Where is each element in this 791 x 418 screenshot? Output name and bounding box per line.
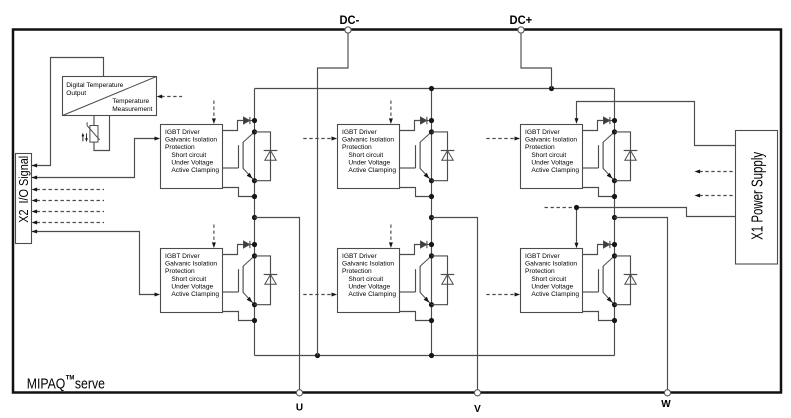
wire: U4 emitter reference to Q4 emitter [223,312,255,321]
svg-text:Galvanic Isolation: Galvanic Isolation [165,261,217,268]
label DC- [340,15,360,27]
wire: freewheel diode D2 branch [432,132,448,181]
IGBT Q1 [239,132,255,181]
svg-text:Short circuit: Short circuit [531,152,566,159]
junction: Q3 emitter node [612,178,617,183]
terminal W [664,390,670,396]
temperature coefficient arrows [82,133,88,142]
junction: Q3 collector node [612,129,617,134]
svg-text:Galvanic Isolation: Galvanic Isolation [525,137,577,144]
freewheel diode D4 [264,275,278,285]
wire: X2 I/O dashed signal line 2 [32,199,105,203]
IGBT Q6 [599,256,615,305]
svg-text:X1 Power Supply: X1 Power Supply [749,152,766,240]
wire: DC- bus [255,355,615,357]
wire: U3 gate drive to Q3 gate [583,167,599,169]
junction: Q5 emitter node [429,302,434,307]
svg-text:Galvanic Isolation: Galvanic Isolation [165,137,217,144]
junction: clamp diode D10 to Q4 collector [252,242,257,247]
wire: supply signal (dashed) into U4 top [212,225,216,249]
wire: freewheel diode D4 branch [255,256,271,305]
wire: U2 active-clamping output to collector of Q2 [400,121,432,131]
wire: freewheel diode D1 branch [255,132,271,181]
svg-text:Digital Temperature: Digital Temperature [66,82,123,89]
label V [474,404,481,415]
svg-text:Short circuit: Short circuit [531,276,566,283]
svg-text:DC+: DC+ [510,15,533,27]
wire: freewheel diode D6 branch [615,256,631,305]
svg-text:Protection: Protection [525,268,555,275]
svg-text:V: V [474,404,481,415]
svg-text:IGBT Driver: IGBT Driver [342,129,377,136]
clamping diode D7 [244,117,250,124]
wire: control signal (dashed) into U6 left [486,293,520,297]
wire: dashed supply continuation to U4/U5 [545,207,574,209]
svg-text:TM: TM [66,375,75,382]
junction: clamp diode D9 to Q3 collector [612,118,617,123]
svg-text:DC-: DC- [340,15,360,27]
junction: phase U output node [252,215,257,220]
label MIPAQ(TM) serve [27,375,105,393]
wire: U4 active-clamping output to collector of Q4 [223,245,255,255]
wire: U1 gate drive to Q1 gate [223,167,239,169]
junction: Q2 emitter sense tap [429,194,434,199]
junction: clamp diode D7 to Q1 collector [252,118,257,123]
junction: Q2 collector node [429,129,434,134]
wire: phase U half-bridge leg (collector/emitter rail) [254,89,256,356]
junction: U6 supply tap [574,205,579,210]
terminal DC- [345,27,351,33]
label U [296,403,303,414]
IGBT Q4 [239,256,255,305]
clamping diode D10 [244,241,250,248]
wire: supply signal (dashed) into U5 top [389,225,393,249]
svg-text:Short circuit: Short circuit [348,276,383,283]
wire: X1 dashed supply output 2 [695,194,736,198]
wire: U4 gate drive to Q4 gate [223,291,239,293]
svg-text:IGBT Driver: IGBT Driver [342,253,377,260]
svg-text:X2 I/O Signal: X2 I/O Signal [17,156,31,223]
junction: phase W output node [612,215,617,220]
gate driver block U6 (bottom W-phase) [521,249,583,313]
svg-text:Output: Output [66,90,86,97]
freewheel diode D1 [264,151,278,161]
svg-text:U: U [296,403,303,414]
gate driver block U2 (top V-phase) [338,125,400,189]
gate driver block U3 (top W-phase) [521,125,583,189]
wire: supply signal (dashed) into U1 top [212,101,216,125]
wire: phase output to terminal W [615,218,668,392]
junction: Q6 emitter node [612,302,617,307]
junction: Q5 collector node [429,253,434,258]
junction: DC- bus / Q5 emitter [429,353,434,358]
svg-text:Short circuit: Short circuit [171,276,206,283]
wire: NTC sensor loop [94,116,110,151]
wire: U5 emitter reference to Q5 emitter [400,312,432,321]
label W [661,399,671,410]
wire: U1 emitter reference to Q1 emitter [223,188,255,197]
svg-text:Protection: Protection [525,144,555,151]
connector X1 (power supply) [736,131,778,265]
junction: Q1 collector node [252,129,257,134]
svg-text:Galvanic Isolation: Galvanic Isolation [525,261,577,268]
junction: Q4 collector node [252,253,257,258]
wire: dashed signal into temperature block [157,95,183,99]
svg-text:IGBT Driver: IGBT Driver [165,253,200,260]
clamping diode D8 [421,117,427,124]
wire: U1 active-clamping output to collector of Q1 [223,121,255,131]
freewheel diode D2 [441,151,455,161]
junction: Q2 emitter node [429,178,434,183]
freewheel diode D3 [624,151,638,161]
svg-text:Under Voltage: Under Voltage [531,159,573,166]
svg-text:Active Clamping: Active Clamping [348,167,396,174]
svg-text:Active Clamping: Active Clamping [531,167,579,174]
wire: control signal (dashed) into U5 left [303,293,337,297]
junction: clamp diode D12 to Q6 collector [612,242,617,247]
wire: X2 to driver U1 (fault/status) [32,137,161,180]
svg-text:Under Voltage: Under Voltage [348,159,390,166]
svg-text:Under Voltage: Under Voltage [171,283,213,290]
wire: U6 gate drive to Q6 gate [583,291,599,293]
junction: Q1 emitter sense tap [252,194,257,199]
svg-text:Active Clamping: Active Clamping [531,291,579,298]
svg-text:Under Voltage: Under Voltage [171,159,213,166]
junction: clamp diode D11 to Q5 collector [429,242,434,247]
junction: Q6 collector node [612,253,617,258]
gate driver block U5 (bottom V-phase) [338,249,400,313]
junction: Q4 emitter node [252,302,257,307]
wire: DC+ terminal feed [521,30,552,89]
IGBT Q5 [416,256,432,305]
terminal V [474,390,480,396]
wire: phase V half-bridge leg (collector/emitter rail) [431,89,433,356]
svg-text:serve: serve [75,376,105,393]
svg-text:Measurement: Measurement [112,106,152,113]
junction: Q4 emitter sense tap [252,318,257,323]
NTC thermistor RT1 [87,122,100,142]
svg-text:MIPAQ: MIPAQ [27,376,66,393]
junction: Q5 emitter sense tap [429,318,434,323]
gate driver block U1 (top U-phase) [161,125,223,189]
svg-text:Protection: Protection [342,144,372,151]
junction: DC+ bus / Q2 collector [429,86,434,91]
terminal DC+ [518,27,524,33]
wire: phase output to terminal V [432,218,478,392]
svg-text:W: W [661,399,671,410]
wire: phase output to terminal U [255,218,300,392]
label DC+ [510,15,533,27]
wire: X2 I/O dashed signal line 1 [32,188,105,192]
freewheel diode D5 [441,275,455,285]
svg-text:Active Clamping: Active Clamping [171,167,219,174]
IGBT Q2 [416,132,432,181]
svg-text:Protection: Protection [165,268,195,275]
freewheel diode D6 [624,275,638,285]
wire: X2 I/O dashed signal line 4 [32,221,105,225]
temperature measurement block A1 [63,77,157,116]
junction: Q6 emitter sense tap [612,318,617,323]
wire: U5 active-clamping output to collector of Q5 [400,245,432,255]
wire: DC- terminal feed [318,30,349,356]
wire: U3 active-clamping output to collector of Q3 [583,121,615,131]
wire: U5 gate drive to Q5 gate [400,291,416,293]
wire: DC+ bus [255,88,615,90]
wire: U6 emitter reference to Q6 emitter [583,312,615,321]
junction: phase V output node [429,215,434,220]
svg-text:Galvanic Isolation: Galvanic Isolation [342,137,394,144]
svg-text:Active Clamping: Active Clamping [348,291,396,298]
svg-text:Short circuit: Short circuit [348,152,383,159]
wire: X2 to driver U4 (fault/status) [32,230,161,297]
svg-text:Under Voltage: Under Voltage [531,283,573,290]
svg-text:IGBT Driver: IGBT Driver [525,129,560,136]
terminal U [296,390,302,396]
wire: X1 supply to driver U6 [575,208,736,249]
svg-text:Short circuit: Short circuit [171,152,206,159]
junction: Q1 emitter node [252,178,257,183]
wire: U2 gate drive to Q2 gate [400,167,416,169]
junction: Q3 emitter sense tap [612,194,617,199]
wire: X1 supply to driver U3 [575,102,736,146]
svg-text:Protection: Protection [342,268,372,275]
wire: U3 emitter reference to Q3 emitter [583,188,615,197]
gate driver block U4 (bottom U-phase) [161,249,223,313]
wire: freewheel diode D5 branch [432,256,448,305]
junction: DC- bus / DC- feed [315,353,320,358]
wire: supply signal (dashed) into U2 top [389,101,393,125]
wire: phase W half-bridge leg (collector/emitter rail) [614,89,616,356]
wire: X1 dashed supply output 1 [695,170,736,174]
svg-text:Temperature: Temperature [112,98,149,105]
clamping diode D11 [421,241,427,248]
wire: X2 I/O dashed signal line 3 [32,210,105,214]
svg-text:Galvanic Isolation: Galvanic Isolation [342,261,394,268]
clamping diode D12 [604,241,610,248]
svg-text:IGBT Driver: IGBT Driver [165,129,200,136]
junction: DC+ bus / DC+ feed [549,86,554,91]
connector X2 (I/O signal) [16,154,32,244]
wire: control signal (dashed) into U3 left [486,137,520,141]
svg-text:Under Voltage: Under Voltage [348,283,390,290]
wire: control signal (dashed) into U2 left [303,137,337,141]
wire: freewheel diode D3 branch [615,132,631,181]
wire: U6 active-clamping output to collector of Q6 [583,245,615,255]
junction: clamp diode D8 to Q2 collector [429,118,434,123]
svg-text:IGBT Driver: IGBT Driver [525,253,560,260]
wire: temperature output to X2 [32,58,104,168]
IGBT Q3 [599,132,615,181]
svg-text:Active Clamping: Active Clamping [171,291,219,298]
clamping diode D9 [604,117,610,124]
wire: U2 emitter reference to Q2 emitter [400,188,432,197]
svg-text:Protection: Protection [165,144,195,151]
